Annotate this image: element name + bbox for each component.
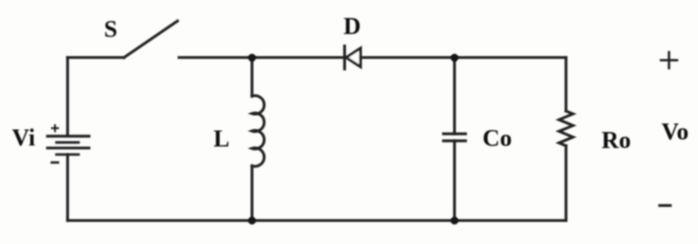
battery Vi plus sign xyxy=(52,125,58,131)
output plus sign xyxy=(661,52,677,68)
svg-text:Vi: Vi xyxy=(12,126,35,152)
wire left vertical upper (Vi+ to top rail) xyxy=(66,58,69,137)
wire right vertical lower xyxy=(565,146,568,221)
battery Vi plate short bottom xyxy=(57,153,79,156)
svg-text:D: D xyxy=(344,14,361,40)
wire top rail diode to right corner xyxy=(361,56,567,59)
wire capacitor bottom xyxy=(453,141,456,221)
node junction dot bottom of L xyxy=(248,217,256,225)
node junction dot bottom of Co xyxy=(451,217,459,225)
capacitor Co plate top xyxy=(444,132,466,135)
wire right vertical upper xyxy=(565,58,568,112)
node junction dot top of Co xyxy=(451,54,459,62)
diode D triangle xyxy=(346,48,360,67)
svg-text:Co: Co xyxy=(483,126,512,152)
svg-text:Ro: Ro xyxy=(602,128,631,154)
node junction dot top of L xyxy=(248,54,256,62)
wire inductor bottom xyxy=(251,166,254,221)
wire inductor top xyxy=(251,58,254,96)
battery Vi minus sign xyxy=(52,161,58,163)
svg-text:S: S xyxy=(104,17,117,43)
diode D cathode bar xyxy=(343,46,346,69)
wire left vertical lower (Vi- to bottom rail) xyxy=(66,155,69,221)
battery Vi plate short upper xyxy=(57,141,79,144)
output minus sign xyxy=(660,204,671,207)
battery Vi plate long lower xyxy=(48,147,90,150)
inductor L coil xyxy=(252,96,264,167)
wire top rail switch to diode xyxy=(179,56,345,59)
capacitor Co plate bottom xyxy=(444,139,466,142)
battery Vi plate long top xyxy=(48,135,90,138)
resistor Ro zigzag xyxy=(559,111,573,146)
switch S blade xyxy=(124,21,178,58)
wire bottom rail xyxy=(68,219,566,222)
wire top rail segment to switch pivot xyxy=(68,56,124,59)
wire capacitor top xyxy=(453,58,456,134)
svg-text:Vo: Vo xyxy=(662,120,689,146)
svg-text:L: L xyxy=(214,126,230,152)
